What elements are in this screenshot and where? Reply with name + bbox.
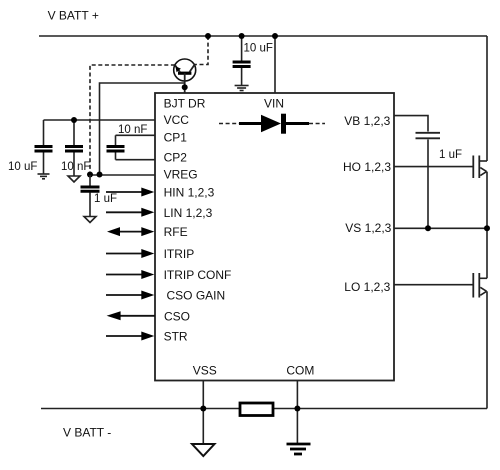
svg-text:VCC: VCC bbox=[164, 113, 190, 127]
svg-text:CP2: CP2 bbox=[164, 151, 188, 165]
svg-text:ITRIP: ITRIP bbox=[164, 247, 195, 261]
svg-text:VS 1,2,3: VS 1,2,3 bbox=[345, 221, 391, 235]
svg-text:V BATT +: V BATT + bbox=[48, 9, 99, 23]
svg-text:10 uF: 10 uF bbox=[8, 161, 37, 173]
svg-text:CSO GAIN: CSO GAIN bbox=[167, 289, 226, 303]
svg-text:HO 1,2,3: HO 1,2,3 bbox=[343, 160, 391, 174]
svg-text:RFE: RFE bbox=[164, 225, 188, 239]
svg-text:CP1: CP1 bbox=[164, 131, 188, 145]
svg-text:VB 1,2,3: VB 1,2,3 bbox=[344, 114, 390, 128]
svg-text:1 uF: 1 uF bbox=[94, 193, 117, 205]
svg-text:STR: STR bbox=[164, 330, 188, 344]
svg-text:VREG: VREG bbox=[164, 168, 198, 182]
svg-text:HIN 1,2,3: HIN 1,2,3 bbox=[164, 186, 215, 200]
svg-text:VIN: VIN bbox=[264, 97, 284, 111]
svg-text:CSO: CSO bbox=[164, 309, 190, 323]
svg-text:BJT DR: BJT DR bbox=[164, 97, 206, 111]
svg-text:10 uF: 10 uF bbox=[244, 43, 273, 55]
svg-text:ITRIP CONF: ITRIP CONF bbox=[164, 268, 232, 282]
svg-text:1 uF: 1 uF bbox=[439, 149, 462, 161]
svg-text:10 nF: 10 nF bbox=[118, 124, 147, 136]
svg-text:LIN 1,2,3: LIN 1,2,3 bbox=[164, 206, 213, 220]
svg-text:10 nF: 10 nF bbox=[61, 161, 90, 173]
svg-text:VSS: VSS bbox=[193, 364, 217, 378]
svg-text:COM: COM bbox=[286, 364, 314, 378]
svg-text:LO 1,2,3: LO 1,2,3 bbox=[344, 280, 390, 294]
svg-text:V BATT -: V BATT - bbox=[63, 426, 111, 440]
